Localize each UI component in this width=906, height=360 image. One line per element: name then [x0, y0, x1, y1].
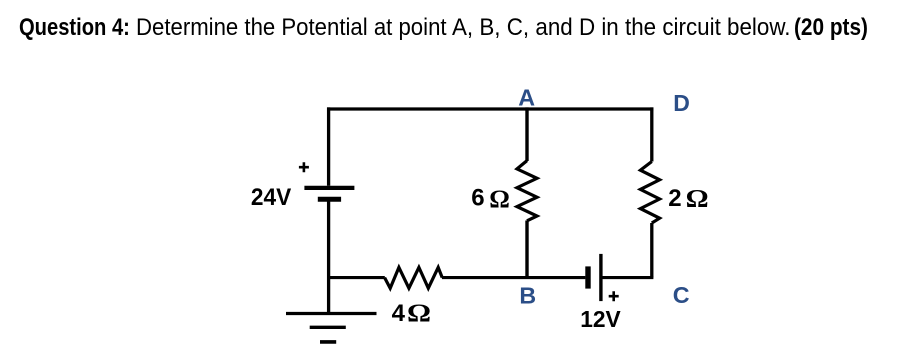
ground line 1	[286, 312, 377, 315]
svg-text:Ω: Ω	[407, 298, 431, 327]
svg-text:6: 6	[471, 185, 484, 212]
svg-text:12V: 12V	[580, 306, 621, 332]
wire right branch upper (D to 2ohm)	[650, 107, 653, 161]
svg-text:B: B	[519, 282, 536, 308]
wire top (node A / D rail)	[327, 107, 653, 110]
resistor 2 ohm zigzag	[640, 162, 659, 224]
svg-text:Ω: Ω	[489, 184, 510, 213]
svg-text:2: 2	[668, 185, 681, 212]
wire bottom left (node B rail left)	[327, 276, 385, 279]
battery 24V long plate	[304, 186, 354, 190]
wire middle branch upper (A to 6ohm)	[525, 107, 528, 161]
resistor 6 ohm zigzag	[517, 161, 537, 221]
title text part 1	[136, 14, 453, 42]
battery 12V long plate	[599, 254, 602, 301]
svg-text:4: 4	[392, 300, 406, 327]
wire bottom right (12V to C)	[601, 276, 654, 279]
wire middle branch lower (6ohm to B)	[525, 221, 528, 280]
ground line 3	[320, 340, 336, 344]
wire left vertical lower (to ground)	[327, 202, 330, 314]
svg-text:Ω: Ω	[686, 184, 709, 213]
svg-text:D: D	[673, 90, 690, 116]
resistor 4 ohm zigzag	[385, 267, 443, 288]
title bold "(20 pts)"	[794, 14, 868, 42]
plus sign 12V	[609, 291, 619, 301]
plus sign 24V	[299, 162, 309, 172]
ground line 2	[310, 326, 346, 329]
svg-text:A: A	[518, 85, 535, 111]
battery 24V short plate	[318, 197, 341, 202]
wire bottom middle (4ohm to 12V)	[442, 276, 586, 279]
battery 12V short plate	[585, 266, 590, 288]
title text part 2	[452, 14, 791, 42]
svg-text:C: C	[673, 282, 690, 308]
wire right branch lower (2ohm to C corner)	[650, 223, 653, 278]
wire left vertical upper (24V top)	[327, 107, 330, 185]
svg-text:24V: 24V	[251, 184, 291, 211]
title bold "Question 4:"	[19, 14, 130, 42]
